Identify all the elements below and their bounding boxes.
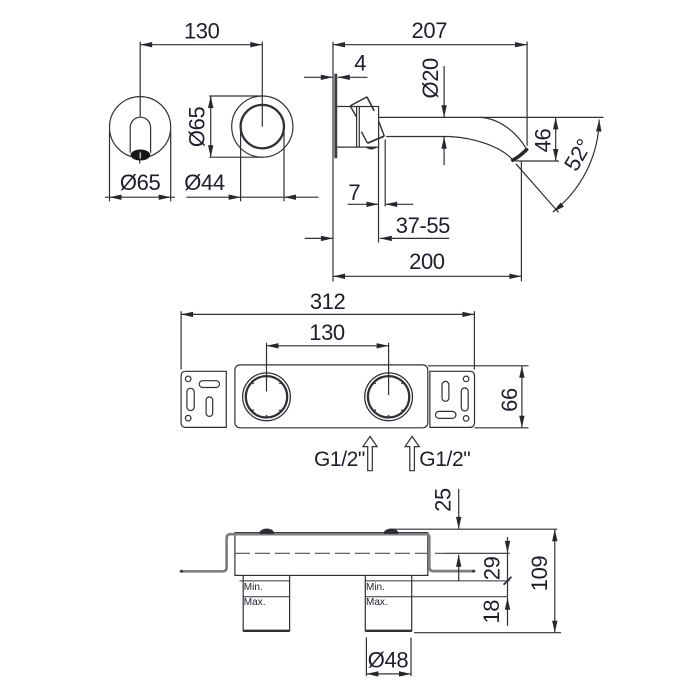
centre line left valve bbox=[266, 343, 268, 392]
wall line bbox=[332, 42, 334, 282]
dimension 18 bbox=[479, 598, 510, 626]
flange right end cap bbox=[472, 570, 475, 573]
svg-text:Ø44: Ø44 bbox=[184, 170, 225, 195]
flange sheet left bbox=[181, 534, 231, 571]
valve circle left outer bbox=[243, 373, 291, 421]
mounting bar bbox=[235, 365, 428, 428]
52 degree arc bbox=[553, 120, 599, 213]
left plate screw hole top bbox=[185, 376, 191, 382]
svg-text:46: 46 bbox=[530, 129, 555, 153]
svg-text:Min.: Min. bbox=[366, 582, 385, 593]
screw dome left bbox=[260, 529, 274, 533]
dimension 7 bbox=[348, 140, 414, 243]
lever handle top-left edge bbox=[350, 97, 367, 106]
lever handle bottom edge bbox=[368, 136, 385, 143]
svg-text:130: 130 bbox=[184, 18, 220, 43]
dimension Ø44 bbox=[184, 131, 318, 201]
valve circle right outer bbox=[365, 373, 413, 421]
svg-text:G1/2": G1/2" bbox=[314, 448, 365, 471]
svg-text:207: 207 bbox=[412, 18, 448, 43]
left plate screw hole bottom bbox=[185, 415, 191, 421]
G1/2 arrow right bbox=[405, 436, 419, 470]
escutcheon plate bbox=[334, 74, 337, 159]
spline ticks right valve bbox=[374, 382, 403, 417]
max line left bbox=[243, 596, 289, 598]
svg-text:29: 29 bbox=[480, 556, 505, 580]
svg-text:52°: 52° bbox=[559, 135, 597, 175]
spout top curve bbox=[480, 117, 527, 149]
cylinder left bottom bbox=[243, 630, 289, 632]
svg-text:4: 4 bbox=[354, 51, 366, 76]
right plate slot horizontal bbox=[436, 411, 456, 418]
flange sheet right bbox=[428, 534, 475, 571]
dimension 25 bbox=[431, 488, 462, 580]
dimension Ø65 left circle bbox=[105, 131, 175, 201]
svg-text:66: 66 bbox=[497, 388, 522, 412]
52 degree reference line bbox=[516, 164, 559, 213]
outlet bottom tick bbox=[139, 160, 141, 163]
escutcheon circle right bbox=[232, 96, 293, 157]
aerator crescent bbox=[513, 150, 527, 161]
dimension 46 bbox=[515, 117, 559, 161]
cylinder bottom extension line bbox=[414, 632, 561, 634]
svg-text:37-55: 37-55 bbox=[396, 213, 450, 238]
svg-text:109: 109 bbox=[527, 556, 552, 592]
svg-text:Min.: Min. bbox=[244, 582, 263, 593]
dimension 130 (middle) bbox=[267, 320, 389, 348]
centre line right valve bbox=[388, 343, 390, 395]
svg-text:Ø65: Ø65 bbox=[185, 107, 210, 148]
dimension 109 bbox=[527, 529, 558, 633]
flange sheet top leg bbox=[230, 533, 429, 536]
spout bottom line bbox=[386, 136, 449, 138]
lever bottom arc bbox=[367, 147, 376, 148]
spout outlet black ellipse bbox=[131, 150, 151, 161]
cylinder right bottom bbox=[365, 630, 411, 632]
lever handle left edge upper bbox=[350, 106, 356, 117]
screw dome right bbox=[384, 529, 398, 533]
escutcheon circle left (spout) bbox=[110, 97, 171, 158]
dimension 312 bbox=[181, 289, 474, 370]
left wall plate bbox=[181, 371, 226, 427]
dimension 200 bbox=[333, 161, 521, 281]
dimension Ø20 bbox=[418, 58, 447, 165]
spout bottom curve bbox=[449, 137, 513, 161]
centre extension line left circle bbox=[139, 42, 141, 117]
spline ticks left valve bbox=[252, 382, 281, 417]
valve circle left inner bbox=[246, 376, 287, 417]
handle circle inner bbox=[241, 105, 284, 148]
dimension 29 bbox=[480, 537, 512, 597]
svg-text:Ø48: Ø48 bbox=[368, 648, 409, 673]
left plate slot vertical bbox=[187, 388, 194, 410]
right wall plate bbox=[430, 371, 475, 427]
dimension Ø65 vertical right circle bbox=[185, 96, 264, 157]
supply cylinder left bbox=[243, 575, 289, 630]
lever handle left edge lower bbox=[361, 132, 367, 144]
svg-text:Ø20: Ø20 bbox=[418, 58, 443, 99]
extension line 207 right bbox=[526, 42, 528, 146]
svg-text:G1/2": G1/2" bbox=[419, 448, 470, 471]
dimension 4 bbox=[304, 51, 368, 80]
svg-text:25: 25 bbox=[431, 488, 456, 512]
svg-text:7: 7 bbox=[348, 180, 360, 205]
svg-text:312: 312 bbox=[310, 289, 346, 314]
svg-text:200: 200 bbox=[409, 249, 445, 274]
G1/2 arrow left bbox=[363, 436, 377, 470]
wall dashed line bbox=[235, 552, 445, 554]
valve body bbox=[337, 107, 356, 148]
svg-text:Max.: Max. bbox=[366, 597, 388, 608]
left plate slot vertical 2 bbox=[206, 397, 213, 417]
left plate slot horizontal bbox=[199, 381, 219, 388]
right plate screw hole top bbox=[463, 376, 469, 382]
dimension 207 bbox=[333, 18, 527, 47]
dimension 37-55 bbox=[305, 213, 450, 241]
right plate screw hole bottom bbox=[463, 416, 469, 422]
dimension 130 (front view) bbox=[140, 18, 262, 47]
svg-text:Max.: Max. bbox=[244, 597, 266, 608]
bar body bbox=[235, 533, 428, 576]
spout outlet capsule bbox=[130, 117, 150, 153]
wall line extension bbox=[445, 552, 510, 554]
lever handle right edge bbox=[379, 122, 385, 137]
lever handle top-right edge bbox=[367, 97, 374, 111]
screw plane extension line bbox=[391, 528, 557, 530]
body ring bbox=[358, 107, 360, 148]
svg-text:18: 18 bbox=[479, 600, 504, 624]
valve circle right inner bbox=[368, 376, 409, 417]
dimension 66 bbox=[428, 366, 529, 428]
supply cylinder right bbox=[365, 575, 411, 630]
min line left bbox=[240, 580, 290, 582]
max line right bbox=[365, 596, 507, 598]
right plate slot vertical 2 bbox=[461, 388, 468, 411]
outlet highlight tick bbox=[139, 152, 141, 158]
dimension Ø48 bbox=[366, 638, 411, 677]
svg-text:Ø65: Ø65 bbox=[120, 170, 161, 195]
centre extension line right circle bbox=[261, 42, 263, 127]
spout top line and horizontal reference bbox=[379, 116, 604, 118]
min line right bbox=[365, 580, 509, 582]
right plate slot vertical bbox=[442, 381, 449, 401]
flange left end cap bbox=[180, 570, 183, 573]
svg-text:130: 130 bbox=[309, 320, 345, 345]
cartridge cap bbox=[357, 107, 379, 148]
